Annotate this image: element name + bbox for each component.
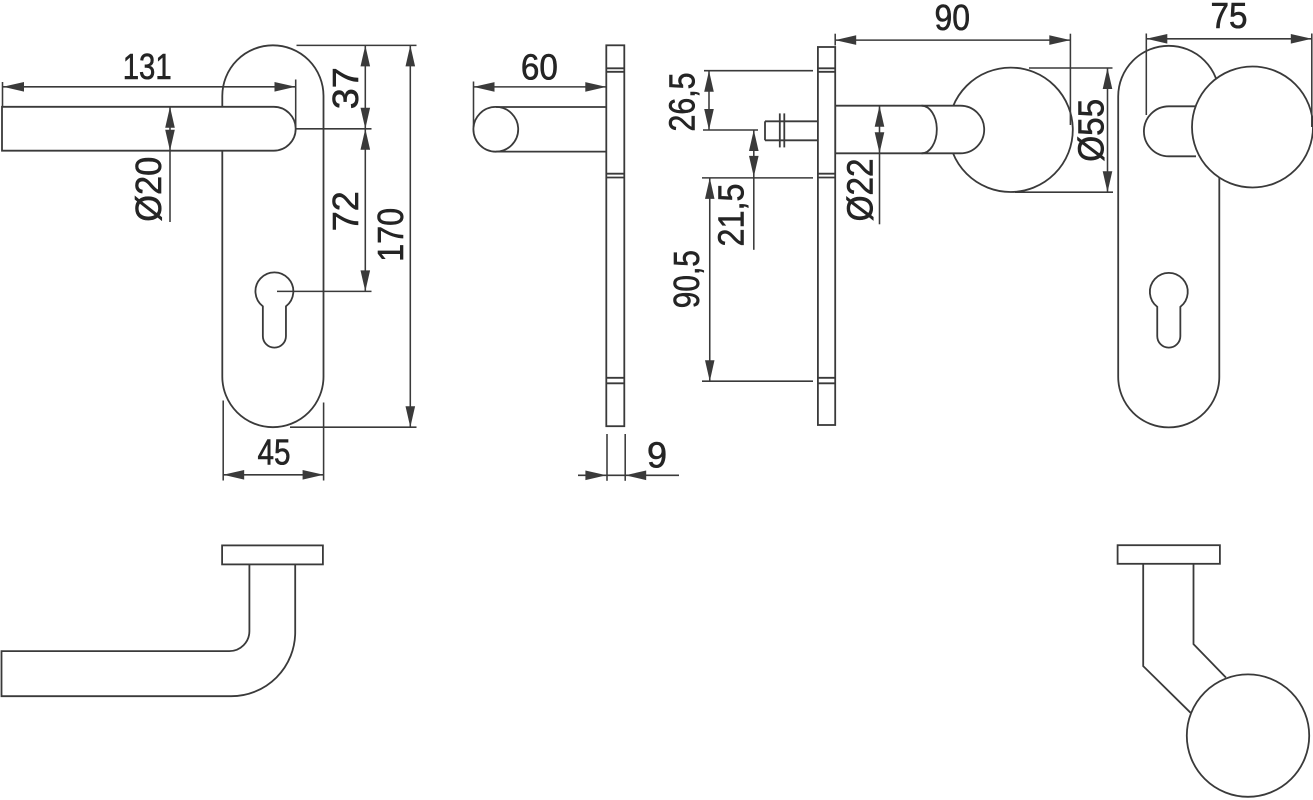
svg-text:170: 170 xyxy=(370,208,411,262)
svg-text:37: 37 xyxy=(325,67,366,109)
svg-text:131: 131 xyxy=(123,46,172,87)
svg-text:45: 45 xyxy=(258,432,291,473)
svg-text:9: 9 xyxy=(647,435,667,476)
svg-text:75: 75 xyxy=(1211,0,1248,36)
svg-text:Ø55: Ø55 xyxy=(1071,99,1112,162)
svg-text:Ø22: Ø22 xyxy=(840,158,881,221)
svg-text:90: 90 xyxy=(935,0,971,38)
svg-text:60: 60 xyxy=(521,47,558,88)
svg-text:26,5: 26,5 xyxy=(662,73,703,132)
svg-text:72: 72 xyxy=(325,191,366,231)
svg-text:90,5: 90,5 xyxy=(666,250,707,308)
svg-text:21,5: 21,5 xyxy=(711,184,752,247)
svg-text:Ø20: Ø20 xyxy=(128,157,169,222)
